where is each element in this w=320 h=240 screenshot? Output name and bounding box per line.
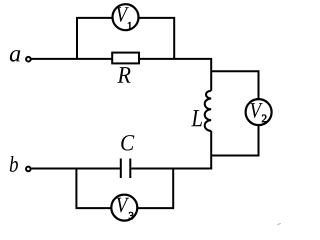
inductor L coil [205, 91, 212, 131]
label L [191, 110, 202, 126]
wire: main bottom wire from terminal b to capacitor left plate [31, 168, 120, 170]
wire: bottom wire to V3 left side [76, 207, 114, 209]
wire: L branch lower segment [210, 131, 212, 170]
wire: V3 right side to corner [137, 207, 175, 209]
wire: V1 right drop to main wire [173, 17, 175, 59]
wire: main top wire from terminal a to L branch [31, 58, 211, 60]
wire: V1 right side to corner [138, 17, 175, 19]
voltmeter V3 [111, 195, 137, 221]
capacitor C [121, 159, 131, 179]
wire: V2 top branch [211, 71, 258, 99]
voltmeter V2 [246, 99, 272, 125]
resistor R [112, 53, 139, 64]
label R [117, 67, 130, 83]
terminal b [26, 167, 31, 172]
wire: V1 left riser [76, 18, 78, 60]
wire: V3 right riser [172, 168, 174, 208]
wire: V2 bottom branch [211, 126, 258, 156]
terminal a [26, 57, 31, 62]
label b [10, 156, 18, 172]
voltmeter V1 [113, 4, 139, 30]
label C [121, 135, 134, 150]
wire: V3 left riser [75, 168, 77, 208]
wire: top wire to V1 left side [76, 17, 113, 19]
label a [10, 50, 20, 62]
wire: capacitor right plate to L branch bottom [131, 168, 212, 170]
wire: L branch upper segment [210, 58, 212, 91]
stray mark artifact [278, 223, 281, 224]
